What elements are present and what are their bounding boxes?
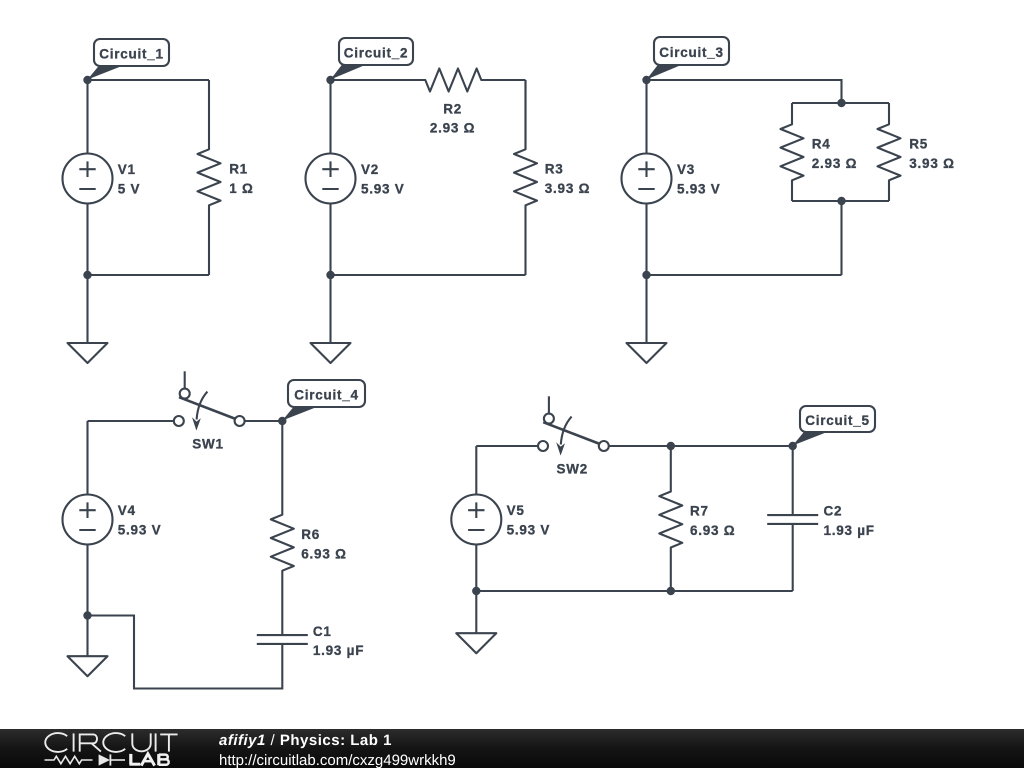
svg-text:3.93 Ω: 3.93 Ω: [909, 156, 954, 171]
node V4 ground junction: [83, 611, 91, 619]
svg-text:V2: V2: [361, 162, 379, 177]
wire V1 top lead: [86, 80, 88, 154]
node R7 bottom junction: [667, 587, 675, 595]
svg-text:afifiy1 / Physics: Lab 1: afifiy1 / Physics: Lab 1: [219, 732, 392, 749]
svg-text:1.93 µF: 1.93 µF: [313, 643, 364, 658]
svg-text:6.93 Ω: 6.93 Ω: [690, 523, 735, 538]
svg-text:R4: R4: [812, 137, 831, 152]
net label Circuit_5: [793, 406, 875, 446]
resistor R4: [781, 103, 858, 201]
net label Circuit_4: [282, 380, 365, 421]
svg-text:V4: V4: [118, 503, 136, 518]
wire C1 bottom return: [88, 616, 283, 689]
wire SW1 to node: [245, 420, 283, 422]
svg-text:V5: V5: [507, 503, 525, 518]
ground GND4: [68, 656, 108, 676]
wire to R2: [331, 79, 426, 81]
wire to ground: [86, 616, 88, 657]
node Circuit_3 bottom junction: [642, 271, 650, 279]
voltage source V5: [451, 495, 550, 545]
node parallel bottom junction: [837, 197, 845, 205]
svg-text:R2: R2: [443, 102, 462, 117]
svg-text:R6: R6: [301, 527, 320, 542]
wire R2 to R3: [524, 80, 526, 149]
wire parallel bottom: [792, 200, 889, 202]
wire bottom Circuit_1: [88, 274, 210, 276]
svg-text:Circuit_1: Circuit_1: [99, 47, 164, 62]
wire parallel to bottom: [840, 201, 842, 275]
wire V2 top lead: [329, 80, 331, 154]
switch SW1: [174, 371, 245, 451]
wire to ground: [329, 275, 331, 343]
svg-text:SW1: SW1: [192, 437, 224, 452]
node parallel top junction: [837, 99, 845, 107]
voltage source V3: [622, 154, 721, 204]
node Circuit_2 bottom junction: [326, 271, 334, 279]
wire V1 bottom lead: [86, 204, 88, 276]
svg-text:2.93 Ω: 2.93 Ω: [812, 156, 857, 171]
wire top Circuit_1: [88, 79, 210, 81]
wire V3 top lead: [645, 80, 647, 154]
resistor R5: [878, 103, 955, 201]
svg-text:1.93 µF: 1.93 µF: [824, 523, 875, 538]
svg-text:R3: R3: [545, 162, 564, 177]
node Circuit_5 junction: [789, 442, 797, 450]
wire SW2 to R7: [609, 445, 671, 447]
wire to ground: [475, 591, 477, 633]
net label Circuit_1 callout: [88, 39, 170, 80]
svg-text:5.93 V: 5.93 V: [118, 523, 162, 538]
wire bottom Circuit_5: [476, 590, 792, 592]
node Circuit_1 top junction: [83, 76, 91, 84]
wire V3 bottom lead: [645, 204, 647, 276]
svg-text:C2: C2: [824, 504, 843, 519]
node V5 ground junction: [472, 587, 480, 595]
svg-text:3.93 Ω: 3.93 Ω: [545, 181, 590, 196]
capacitor C2: [767, 504, 875, 538]
switch SW2: [538, 396, 609, 476]
svg-text:http://circuitlab.com/cxzg499w: http://circuitlab.com/cxzg499wrkkh9: [219, 752, 456, 768]
node Circuit_2 top junction: [326, 76, 334, 84]
svg-text:SW2: SW2: [557, 462, 589, 477]
capacitor C1: [257, 624, 364, 658]
ground GND5: [456, 633, 496, 653]
svg-text:2.93 Ω: 2.93 Ω: [430, 120, 475, 135]
wire top Circuit_3: [647, 80, 842, 103]
svg-text:Circuit_5: Circuit_5: [805, 413, 870, 428]
wire R7 to C2 top: [671, 445, 793, 447]
logo resistor-diode glyph: [45, 754, 126, 765]
svg-text:5.93 V: 5.93 V: [677, 182, 721, 197]
ground GND3: [627, 343, 667, 363]
resistor R1: [198, 80, 254, 275]
node Circuit_3 top junction: [642, 76, 650, 84]
svg-text:V3: V3: [677, 162, 695, 177]
svg-text:6.93 Ω: 6.93 Ω: [301, 546, 346, 561]
wire bottom Circuit_2: [331, 274, 526, 276]
wire C2 bottom lead: [792, 524, 794, 591]
voltage source V1: [63, 154, 141, 204]
wire V4 top lead: [86, 421, 88, 495]
CircuitLab logo CIRCUIT: [45, 733, 177, 752]
net label Circuit_2: [331, 38, 414, 80]
resistor R2: [331, 69, 526, 136]
resistor R3: [514, 80, 590, 275]
wire V4 bottom lead: [86, 545, 88, 616]
wire V2 bottom lead: [329, 204, 331, 276]
voltage source V4: [63, 495, 162, 545]
svg-text:C1: C1: [313, 624, 332, 639]
wire V5 bottom lead: [475, 545, 477, 592]
node R7 top junction: [667, 442, 675, 450]
voltage source V2: [306, 154, 405, 204]
svg-text:R1: R1: [229, 162, 248, 177]
ground GND2: [311, 343, 351, 363]
net label Circuit_3: [647, 37, 730, 80]
wire to ground: [86, 275, 88, 343]
svg-text:Circuit_2: Circuit_2: [344, 46, 409, 61]
svg-text:5.93 V: 5.93 V: [507, 523, 551, 538]
svg-text:R5: R5: [909, 137, 928, 152]
CircuitLab logo LAB: [129, 754, 168, 766]
wire bottom Circuit_3: [647, 274, 842, 276]
wire C2 top lead: [792, 446, 794, 515]
wire to ground: [645, 275, 647, 343]
node Circuit_4 junction: [278, 417, 286, 425]
svg-text:Circuit_3: Circuit_3: [659, 45, 724, 60]
svg-text:5.93 V: 5.93 V: [361, 182, 405, 197]
ground GND1: [68, 343, 108, 363]
node Circuit_1 bottom junction: [83, 271, 91, 279]
wire parallel top: [792, 102, 889, 104]
svg-text:Circuit_4: Circuit_4: [294, 388, 359, 403]
wire V5 top lead: [475, 446, 477, 495]
wire V5 to SW2: [476, 445, 538, 447]
svg-text:V1: V1: [118, 162, 136, 177]
svg-text:1 Ω: 1 Ω: [229, 181, 253, 196]
resistor R7: [659, 446, 735, 591]
resistor R6: [271, 421, 347, 635]
svg-text:R7: R7: [690, 504, 709, 519]
wire V4 to SW1: [88, 420, 174, 422]
svg-text:5 V: 5 V: [118, 182, 141, 197]
